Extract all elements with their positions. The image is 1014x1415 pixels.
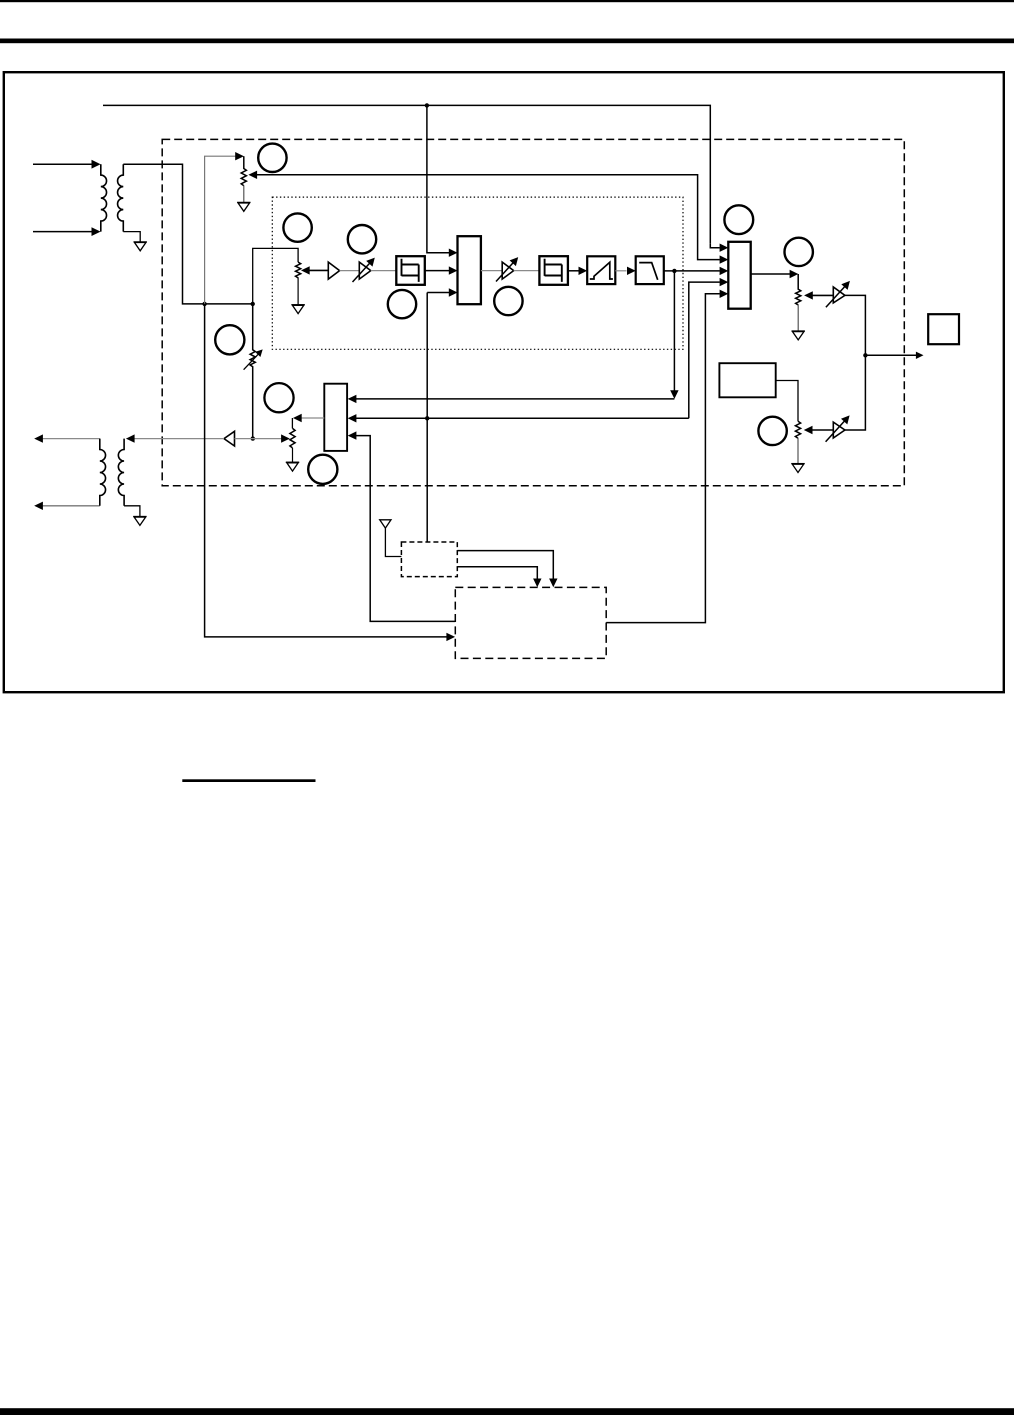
wire AT2 to limiter Z2 (514, 270, 540, 272)
wire: node B down to filter block input (205, 304, 447, 637)
discriminator block Z3 (587, 256, 615, 284)
transformer T2 (100, 439, 124, 506)
wire: node A down to U1 pin1 (427, 105, 449, 252)
circle callout 11 (264, 383, 293, 412)
wire Z1 to U1 pin2 (425, 270, 449, 272)
wire Z3 to filter Z4 (615, 270, 626, 272)
attenuator AT2 (496, 257, 518, 281)
ground R4 (292, 448, 294, 462)
wire: R5 wiper to buffer A1 (309, 269, 328, 271)
circle callout 3 (348, 225, 376, 253)
wire: node C up to resistor R5 (253, 248, 298, 304)
ground R5 (297, 277, 299, 304)
wire T2 secondary bottom to ground (124, 506, 140, 517)
junction node B (202, 302, 206, 306)
junction node C (251, 302, 255, 306)
wire: top bus (103, 105, 710, 243)
header rule (0, 39, 1014, 44)
dashed unit enclosure (162, 139, 904, 485)
junction node G (251, 436, 255, 440)
wire U1 out to attenuator AT2 (481, 270, 502, 272)
transformer T1 input wire bottom (33, 231, 93, 233)
oscillator block Y1 (719, 363, 775, 397)
junction node F (863, 353, 867, 357)
wire: keyer out B to filter block (457, 567, 537, 579)
wire: keyer out A to filter block (457, 551, 553, 579)
attenuator AT3 (826, 281, 850, 307)
transformer T1 (101, 164, 124, 231)
transformer T1 input wire top (33, 163, 93, 165)
attenuator AT4 (826, 415, 850, 441)
transformer T2 output wire bottom (43, 505, 100, 507)
wire Z4 out to U2 pin3 (664, 270, 720, 272)
connector square J1 (928, 314, 959, 344)
wire: net at y418 from U2 pin4 to A2 pin2 (356, 282, 720, 418)
wire: modem receive line to U2 pin5 (606, 294, 720, 623)
combiner block U2 (728, 242, 750, 309)
circle callout 1 (258, 144, 286, 172)
dotted sub-assembly enclosure (272, 197, 683, 349)
ground R2 (797, 305, 799, 332)
pot R4 (290, 428, 295, 448)
circle callout 5 (494, 287, 522, 315)
wire: node E feedback down (673, 271, 675, 391)
ground R1 (243, 186, 245, 203)
amplifier block A2 (324, 384, 347, 451)
junction node E (672, 269, 676, 273)
circle callout 8 (215, 325, 244, 354)
open arrow up from keying oscillator (380, 520, 402, 557)
ground R3 (797, 438, 799, 464)
page top bar (0, 0, 1014, 2)
wire A3 input from node G to pot R4 (235, 438, 282, 440)
wire AT3 to summing node F (845, 295, 866, 355)
wire: T1 secondary bottom to ground (123, 232, 140, 242)
rheostat R6 (244, 304, 263, 439)
circle callout 7 (785, 238, 813, 266)
limiter block Z1 (396, 256, 425, 285)
wire node F down to attenuator AT4 (845, 355, 866, 430)
circle callout 9 (308, 455, 337, 484)
wire Z2 to discriminator Z3 (568, 270, 579, 272)
filter dashed block (455, 587, 606, 658)
arrowhead into U2 pin2 (720, 255, 729, 263)
attenuator AT1 (353, 258, 375, 282)
junction node D (425, 416, 429, 420)
caption underline (182, 779, 315, 782)
pot R2 (796, 274, 801, 305)
wire A1 to attenuator (340, 270, 360, 272)
op-amp block U1 (458, 236, 481, 304)
arrowhead into U2 pin1 (710, 244, 720, 248)
wire: R1 wiper from line driver bus (257, 175, 720, 260)
line driver A3 (224, 431, 235, 446)
pot R3 (795, 421, 800, 438)
junction node A (425, 103, 429, 107)
buffer A1 (328, 262, 339, 279)
wire AT4 to pot R3 wiper (812, 429, 833, 431)
wire: filter block output to A2 pin3 (356, 436, 455, 622)
transformer T2 output wire top (43, 438, 100, 440)
circle callout 4 (388, 290, 416, 318)
ground T2 (133, 517, 146, 526)
limiter block Z2 (539, 256, 568, 285)
wire A2 output to pot R4 top (301, 417, 324, 419)
wire R2 wiper from attenuator AT3 (812, 294, 833, 296)
resistor R5 (296, 262, 301, 278)
keying oscillator dashed block (401, 542, 457, 577)
circle callout 6 (724, 205, 753, 234)
wire: node B up to pot R1 top (205, 156, 236, 304)
wire AT1 to limiter Z1 (371, 270, 397, 272)
wire A3 output to T2 (134, 438, 224, 440)
figure frame (4, 72, 1004, 692)
low-pass filter block Z4 (636, 256, 664, 284)
wire: T1 secondary top to left riser (123, 164, 252, 304)
wire U2 output to pot R2 (751, 273, 790, 275)
wire Y1 out to pot R3 (776, 381, 798, 422)
wire: oscillator riser to U1 pin3 (427, 292, 449, 294)
circle callout 10 (758, 417, 786, 445)
wire node F to output arrow (865, 354, 916, 356)
wire: feedback to A2 block pin1 (356, 398, 674, 400)
pot R1 (241, 156, 246, 185)
page bottom bar (0, 1408, 1014, 1415)
ground T1 (134, 242, 147, 251)
circle callout 2 (283, 213, 311, 241)
